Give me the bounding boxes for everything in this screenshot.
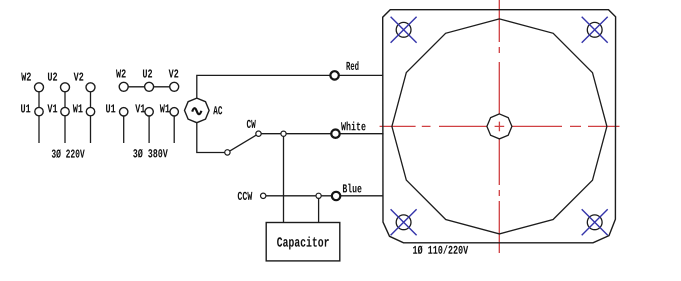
motor centerline vertical (red dash-dot) [498,0,500,253]
motor body circle (12-gon) [392,19,607,234]
terminal W1 (380V group) [170,108,178,116]
switch contact CCW [238,192,266,200]
wire W1 lead (380V group) [173,112,175,143]
wire V1 lead (380V group) [148,112,150,143]
junction on CW line [281,131,286,136]
motor outer frame [383,10,616,243]
label 1-phase 110/220V [413,245,468,254]
wire W2-U2-V2 star link (380V group) [124,86,175,88]
terminal V2 (220V group) [86,83,95,92]
switch blade [230,135,257,151]
motor centerline horizontal (red dash-dot) [380,125,620,127]
switch pole contact [225,150,230,155]
wire W2-U1 column (220V group) [38,88,40,143]
wire CCW contact to Blue terminal [263,195,383,197]
terminal Red [330,71,338,79]
AC source V1 [185,98,223,123]
terminal U2 (380V group) [145,82,154,91]
wire junction to capacitor left lead [283,134,285,223]
terminal U1 (380V group) [120,108,128,116]
terminal V2 (380V group) [170,82,179,91]
mounting hole bottom-right [582,209,608,235]
mounting hole top-right [582,17,608,43]
terminal W2 (380V group) [119,82,128,91]
wire junction to capacitor right lead [318,196,320,223]
wire U2-V1 column (220V group) [64,88,66,143]
wire AC source to switch pole [197,122,228,153]
terminal W1 (220V group) [86,107,94,115]
wire CW contact to White terminal [259,133,384,135]
terminal W2 (220V group) [35,83,44,92]
wire V2-W1 column (220V group) [90,88,92,143]
wire AC source to Red terminal [197,75,383,99]
wire U1 lead (380V group) [123,112,125,143]
terminal White [331,122,365,138]
label 3-phase 380V [133,149,168,158]
center mark (red cross) [495,122,505,132]
junction on CCW line [316,193,321,198]
terminal U2 (220V group) [61,83,70,92]
terminal V1 (220V group) [61,107,69,115]
capacitor C1 box [266,223,340,261]
motor shaft boss (octagon) [487,114,512,139]
terminal Blue [332,184,362,201]
label 3-phase 220V [52,149,85,158]
switch contact CW [247,120,261,137]
terminal V1 (380V group) [145,108,153,116]
mounting hole top-left [391,17,417,43]
terminal U1 (220V group) [35,107,43,115]
mounting hole bottom-left [391,209,417,235]
